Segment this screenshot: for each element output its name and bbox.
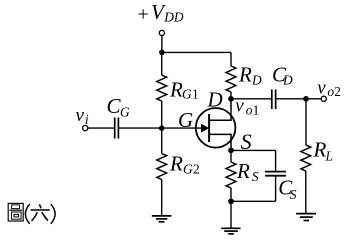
wire drain node to CD (231, 98, 271, 100)
svg-text:v: v (76, 105, 85, 126)
glyph 六 top tick (39, 204, 41, 208)
transistor Q1 channel bar (208, 114, 210, 142)
svg-text:R: R (169, 151, 183, 175)
glyph 六 left leg (32, 212, 38, 221)
transistor Q1 gate arrowhead (201, 124, 209, 133)
capacitor CS (265, 172, 286, 176)
junction dot drain node (228, 96, 234, 102)
wire RD top (230, 52, 232, 66)
wire RL to ground (305, 171, 307, 214)
glyph 圖 top small box (12, 205, 20, 209)
junction dot gate (159, 125, 165, 131)
wire CG to gate junction (119, 127, 162, 129)
wire VDD terminal to top rail (161, 36, 163, 53)
label RS (236, 159, 259, 184)
svg-text:G: G (182, 86, 192, 101)
svg-text:G: G (178, 108, 193, 132)
figure caption 圖(六) (8, 203, 55, 223)
capacitor CG (115, 118, 119, 139)
glyph 圖 outer box (8, 203, 23, 221)
junction dot RL node (303, 96, 309, 102)
wire RD bottom to drain node (230, 92, 232, 99)
wire RG2 to ground (161, 180, 163, 216)
svg-text:1: 1 (253, 103, 260, 118)
label vi (76, 105, 89, 127)
ground (right, below RL) (296, 214, 316, 221)
svg-text:G: G (183, 162, 193, 177)
wire RS top (230, 150, 232, 162)
glyph 圖 middle horizontal stroke (10, 209, 22, 211)
wire source node to CS branch (231, 149, 276, 151)
output terminal vo2 (open circle) (321, 96, 326, 101)
label CD (272, 63, 293, 88)
resistor RD (226, 66, 236, 92)
capacitor CD (272, 90, 276, 110)
svg-text:D: D (282, 73, 293, 88)
resistor RG2 (157, 154, 167, 180)
wire RS bottom node to ground (230, 201, 232, 228)
svg-text:2: 2 (193, 162, 200, 177)
label RG2 (169, 151, 200, 176)
svg-text:2: 2 (334, 84, 341, 99)
wire top rail down to RG1 (161, 52, 163, 75)
label CG (107, 94, 131, 120)
svg-text:G: G (120, 105, 130, 120)
svg-text:DD: DD (163, 10, 184, 25)
wire RL top (305, 99, 307, 145)
wire CS top lead (275, 150, 277, 171)
svg-text:S: S (290, 187, 297, 202)
svg-text:S: S (252, 169, 259, 184)
glyph 六 right leg (42, 212, 48, 220)
wire vi to CG (88, 127, 114, 129)
svg-text:D: D (251, 73, 262, 88)
svg-text:v: v (317, 77, 326, 98)
resistor RL (301, 145, 311, 171)
svg-text:L: L (325, 149, 333, 164)
wire RS bottom (230, 188, 232, 201)
label vo2 (317, 77, 341, 99)
svg-text:R: R (169, 78, 183, 102)
label vo1 (235, 96, 259, 118)
ground (left, below RG2) (152, 216, 172, 222)
label RD (238, 63, 262, 88)
wire CS bottom lead (275, 177, 277, 202)
wire RG1 to gate junction (161, 101, 163, 128)
svg-text:R: R (313, 137, 327, 161)
label +VDD (138, 0, 184, 26)
svg-text:1: 1 (192, 86, 199, 101)
wire CD to output terminal (277, 98, 322, 100)
glyph 圖 bottom box (12, 212, 22, 219)
svg-text:R: R (238, 63, 252, 87)
label CS (278, 176, 297, 203)
label RG1 (169, 78, 199, 102)
glyph 圖 innermost box (14, 214, 19, 217)
transistor Q1 (JFET) body circle (196, 108, 236, 148)
junction dot source node (228, 148, 234, 154)
ground (center, below RS) (221, 228, 240, 234)
transistor Q1 source tap (209, 134, 231, 150)
wire RG2 top (161, 128, 163, 153)
junction dot RS bottom node (228, 198, 234, 204)
wire gate junction to transistor gate (162, 127, 202, 129)
wire top rail horizontal (162, 51, 231, 53)
svg-text:+: + (138, 4, 149, 26)
power terminal +VDD (open circle) (159, 30, 164, 35)
svg-text:R: R (236, 159, 250, 183)
input terminal vi (open circle) (83, 126, 88, 131)
glyph 六 horizontal stroke (31, 209, 50, 211)
label RL (313, 137, 333, 163)
resistor RS (226, 162, 236, 188)
svg-text:D: D (207, 87, 223, 111)
glyph ( (25, 204, 29, 224)
transistor Q1 drain tap (209, 99, 231, 120)
wire bottom node to CS bottom (231, 200, 276, 202)
junction dot top rail (159, 50, 165, 56)
resistor RG1 (157, 75, 167, 101)
glyph ) (51, 204, 55, 224)
